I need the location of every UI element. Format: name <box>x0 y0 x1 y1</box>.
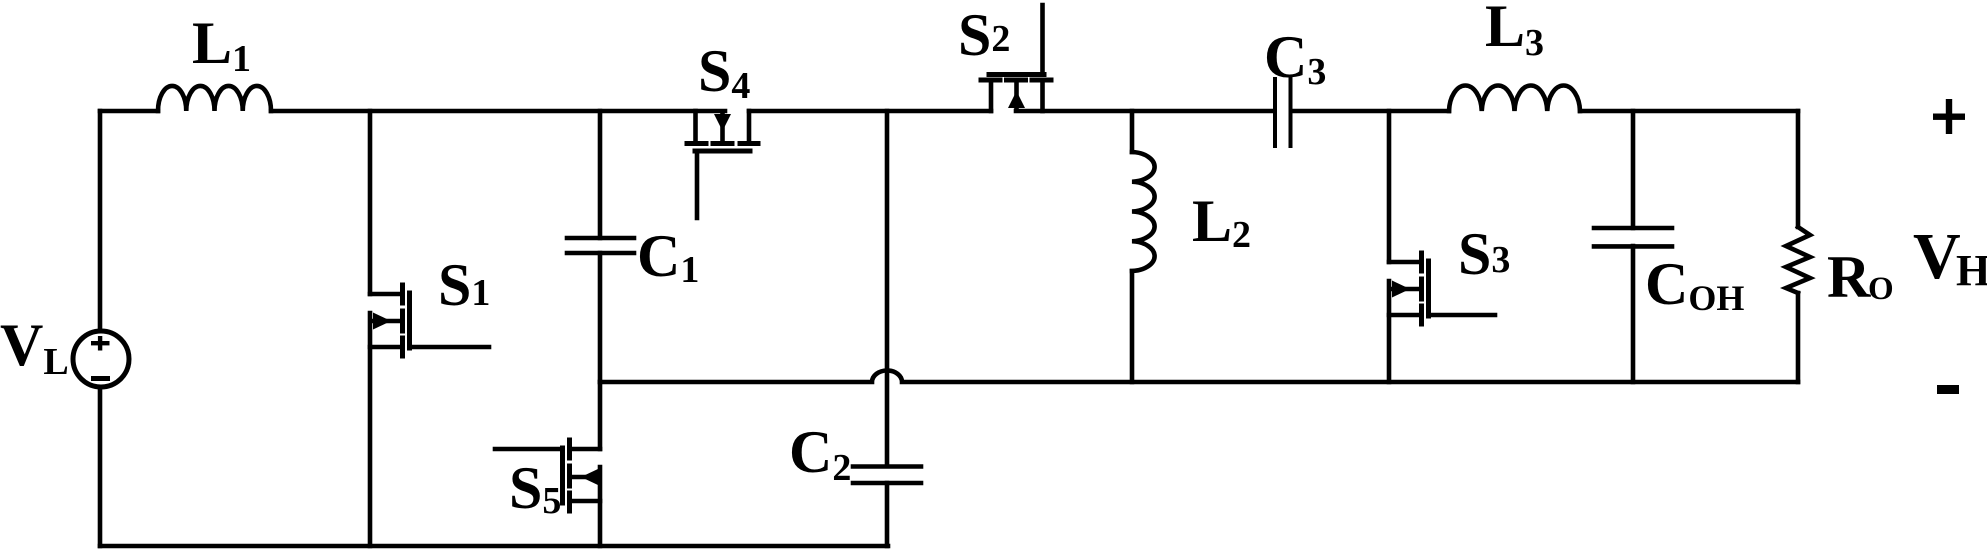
svg-text:C3: C3 <box>1264 24 1326 93</box>
svg-text:C1: C1 <box>637 223 699 291</box>
svg-text:S4: S4 <box>698 38 750 107</box>
svg-text:VL: VL <box>0 312 69 383</box>
svg-text:L1: L1 <box>192 10 251 80</box>
svg-text:R: R <box>1827 244 1871 310</box>
svg-text:L3: L3 <box>1485 0 1544 64</box>
svg-text:S3: S3 <box>1458 221 1510 287</box>
svg-text:C2: C2 <box>789 419 851 489</box>
svg-text:COH: COH <box>1645 251 1744 318</box>
svg-text:L2: L2 <box>1192 188 1251 256</box>
svg-text:S2: S2 <box>958 2 1010 68</box>
svg-text:V: V <box>1913 220 1961 293</box>
svg-text:O: O <box>1868 271 1894 307</box>
svg-text:S1: S1 <box>438 252 490 318</box>
svg-text:S5: S5 <box>509 455 561 522</box>
svg-text:H: H <box>1956 246 1987 295</box>
